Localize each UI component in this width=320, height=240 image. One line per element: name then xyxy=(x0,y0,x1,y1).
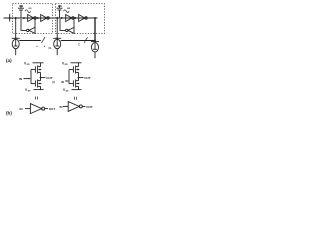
svg-text:DD: DD xyxy=(65,64,69,66)
svg-text:OUT: OUT xyxy=(46,76,53,80)
svg-text:C: C xyxy=(78,43,80,46)
svg-text:IN: IN xyxy=(61,80,64,84)
svg-text:OUT: OUT xyxy=(84,76,91,80)
svg-text:(a): (a) xyxy=(6,58,12,63)
svg-text:EN: EN xyxy=(20,4,24,8)
svg-text:(r): (r) xyxy=(52,80,55,84)
svg-text:EN: EN xyxy=(58,4,62,8)
svg-text:IN: IN xyxy=(60,105,63,109)
svg-text:IN: IN xyxy=(19,77,22,81)
svg-text:CL: CL xyxy=(49,47,53,50)
svg-text:DD: DD xyxy=(27,64,31,66)
svg-text:IN: IN xyxy=(20,107,23,111)
svg-text:OUT: OUT xyxy=(49,107,56,111)
svg-text:OUT: OUT xyxy=(86,105,93,109)
svg-text:(b): (b) xyxy=(6,111,12,116)
